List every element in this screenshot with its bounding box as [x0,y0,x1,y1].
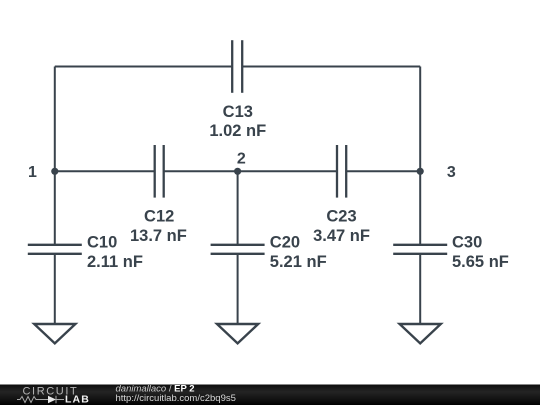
svg-text:C13: C13 [223,103,253,121]
svg-text:C10: C10 [87,234,117,252]
capacitor C10 plates [28,244,82,246]
wire C10 to ground [54,254,56,324]
svg-text:C12: C12 [144,208,174,226]
node 1 junction dot [51,168,58,175]
wire left vertical upper [54,67,56,172]
svg-text:5.21 nF: 5.21 nF [270,253,327,271]
ground symbol left [34,324,75,343]
wire C12 to node2 [164,170,238,172]
wire node2 to C23 [238,170,337,172]
node 2 junction dot [234,168,241,175]
svg-text:LAB: LAB [65,394,90,405]
wire node3 to C30 [419,171,421,245]
svg-text:1: 1 [28,164,37,181]
svg-text:C20: C20 [270,234,300,252]
svg-text:2.11 nF: 2.11 nF [87,253,143,271]
svg-text:2: 2 [237,150,246,167]
capacitor C30 plates [393,244,447,246]
wire node1 to C10 [54,171,56,245]
ground symbol right [400,324,441,343]
wire top-left horizontal [55,66,232,68]
capacitor C12 plates [154,145,156,198]
svg-text:3.47 nF: 3.47 nF [313,227,370,245]
svg-text:http://circuitlab.com/c2bq9s5: http://circuitlab.com/c2bq9s5 [116,393,236,404]
ground symbol middle [217,324,258,343]
wire node1 to C12 [55,170,155,172]
svg-text:C23: C23 [326,208,356,226]
svg-text:1.02 nF: 1.02 nF [209,122,266,140]
svg-text:3: 3 [447,164,456,181]
wire node2 to C20 [237,171,239,245]
CircuitLab logo resistor zigzag and diode [17,396,64,403]
capacitor C13 plates [231,40,233,93]
svg-text:5.65 nF: 5.65 nF [452,253,509,271]
node 3 junction dot [417,168,424,175]
wire C23 to node3 [346,170,420,172]
wire C30 to ground [419,254,421,324]
wire C20 to ground [237,254,239,324]
svg-text:13.7 nF: 13.7 nF [130,227,187,245]
svg-text:C30: C30 [452,234,482,252]
capacitor C20 plates [211,244,265,246]
wire top-right horizontal [242,66,420,68]
wire right vertical upper [419,67,421,172]
capacitor C23 plates [336,145,338,198]
